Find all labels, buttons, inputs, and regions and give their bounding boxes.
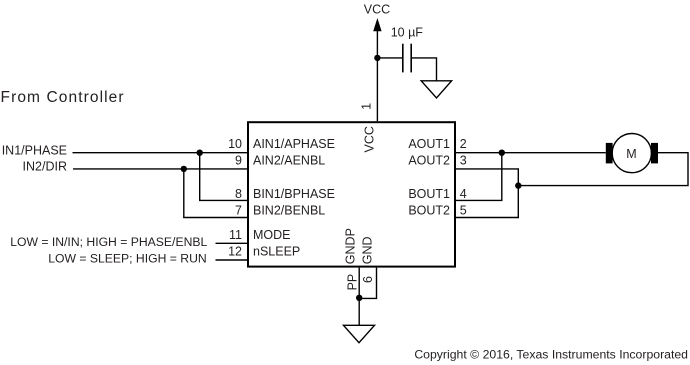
svg-text:LOW = SLEEP; HIGH = RUN: LOW = SLEEP; HIGH = RUN bbox=[48, 251, 206, 265]
wire AOUT1 drop to pin 4 bbox=[456, 153, 502, 201]
svg-text:IN2/DIR: IN2/DIR bbox=[23, 160, 67, 174]
svg-text:6: 6 bbox=[361, 276, 375, 283]
svg-text:BIN1/BPHASE: BIN1/BPHASE bbox=[253, 187, 335, 201]
svg-text:VCC: VCC bbox=[363, 126, 377, 152]
node junction dot on VCC bbox=[374, 55, 380, 61]
wire GND pin down and left bbox=[359, 268, 376, 299]
ground (capacitor) bbox=[421, 81, 451, 98]
svg-text:5: 5 bbox=[460, 204, 467, 218]
wire motor return loop bbox=[518, 153, 688, 186]
svg-text:AIN2/AENBL: AIN2/AENBL bbox=[253, 154, 325, 168]
svg-text:8: 8 bbox=[235, 187, 242, 201]
svg-text:2: 2 bbox=[460, 137, 467, 151]
svg-text:4: 4 bbox=[460, 187, 467, 201]
svg-text:nSLEEP: nSLEEP bbox=[253, 245, 300, 259]
wire VCC to capacitor bbox=[377, 57, 402, 59]
wire pin 3 AOUT2 down to pin 5 bbox=[456, 169, 518, 218]
wire IN1 drop to pin 8 bbox=[200, 153, 247, 201]
svg-text:MODE: MODE bbox=[253, 228, 291, 242]
node junction dot IN2 bbox=[181, 166, 187, 172]
svg-text:GND: GND bbox=[361, 236, 375, 264]
capacitor C1 bbox=[403, 44, 411, 73]
wire capacitor to ground bbox=[411, 58, 436, 81]
svg-text:AOUT2: AOUT2 bbox=[408, 154, 450, 168]
motor M1 brush left bbox=[606, 143, 613, 164]
svg-text:7: 7 bbox=[235, 204, 242, 218]
svg-text:Copyright © 2016, Texas Instru: Copyright © 2016, Texas Instruments Inco… bbox=[414, 347, 688, 361]
svg-text:11: 11 bbox=[229, 228, 242, 242]
svg-text:LOW = IN/IN; HIGH = PHASE/ENBL: LOW = IN/IN; HIGH = PHASE/ENBL bbox=[10, 235, 207, 249]
wire IN2/DIR to pin 9 bbox=[73, 168, 247, 170]
wire IN2 drop to pin 7 bbox=[184, 169, 247, 218]
wire GNDP pin down to ground bbox=[358, 268, 360, 326]
svg-text:10: 10 bbox=[228, 137, 242, 151]
ground (IC) bbox=[344, 325, 375, 342]
svg-text:9: 9 bbox=[235, 154, 242, 168]
motor M1 brush right bbox=[651, 143, 658, 164]
svg-text:IN1/PHASE: IN1/PHASE bbox=[2, 144, 67, 158]
svg-text:12: 12 bbox=[228, 245, 242, 259]
svg-text:1: 1 bbox=[360, 103, 374, 110]
svg-text:AOUT1: AOUT1 bbox=[408, 137, 450, 151]
wire pin 2 AOUT1 to motor bbox=[456, 152, 606, 154]
svg-text:BOUT2: BOUT2 bbox=[408, 204, 450, 218]
node junction dot AOUT1 bbox=[499, 150, 505, 156]
node junction dot ground bbox=[356, 295, 362, 301]
svg-text:BOUT1: BOUT1 bbox=[408, 187, 450, 201]
node junction dot IN1 bbox=[197, 150, 203, 156]
svg-text:10 µF: 10 µF bbox=[391, 26, 424, 40]
op-amp U1 IC body DRV8833 bbox=[248, 122, 455, 266]
motor M1 body bbox=[612, 134, 651, 173]
svg-text:From Controller: From Controller bbox=[1, 89, 125, 106]
svg-text:M: M bbox=[626, 147, 636, 161]
svg-text:AIN1/APHASE: AIN1/APHASE bbox=[253, 137, 335, 151]
svg-text:BIN2/BENBL: BIN2/BENBL bbox=[253, 204, 325, 218]
svg-text:GNDP: GNDP bbox=[344, 228, 358, 264]
wire VCC vertical to pin 1 bbox=[376, 28, 378, 121]
wire to pin 12 nSLEEP bbox=[216, 259, 248, 261]
node junction dot AOUT2 return bbox=[515, 182, 521, 188]
svg-text:VCC: VCC bbox=[364, 2, 390, 16]
wire IN1/PHASE to pin 10 bbox=[73, 152, 248, 154]
svg-text:3: 3 bbox=[460, 154, 467, 168]
svg-text:PP: PP bbox=[346, 274, 360, 291]
VCC arrow bbox=[373, 18, 381, 31]
wire to pin 11 MODE bbox=[216, 242, 248, 244]
